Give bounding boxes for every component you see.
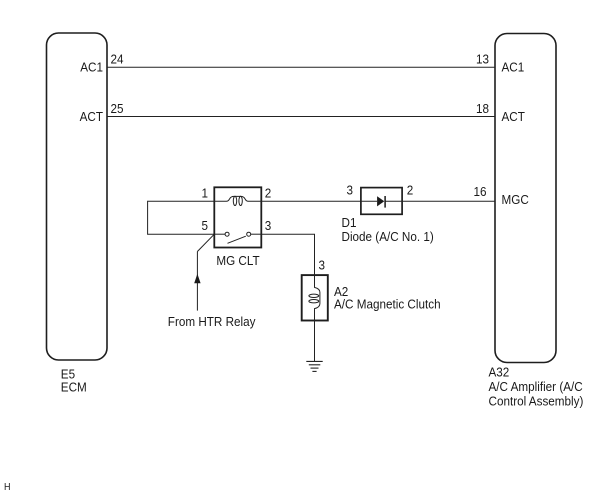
- clutch A2 coil: [309, 275, 320, 320]
- wire from HTR relay vertical: [196, 252, 198, 311]
- svg-text:A/C Magnetic Clutch: A/C Magnetic Clutch: [334, 297, 441, 312]
- svg-text:Control Assembly): Control Assembly): [489, 394, 584, 409]
- svg-text:5: 5: [201, 218, 208, 233]
- wire down to clutch: [314, 234, 316, 275]
- svg-text:Diode (A/C No. 1): Diode (A/C No. 1): [342, 229, 434, 244]
- svg-text:ACT: ACT: [502, 110, 526, 125]
- clutch A2 box: [302, 275, 328, 320]
- svg-text:From HTR Relay: From HTR Relay: [168, 314, 256, 329]
- svg-text:2: 2: [407, 183, 414, 198]
- svg-text:ECM: ECM: [61, 380, 87, 395]
- diode D1 box: [361, 188, 402, 215]
- svg-text:13: 13: [476, 52, 489, 67]
- svg-text:D1: D1: [342, 215, 357, 230]
- connector A32 body: [495, 34, 556, 363]
- svg-text:16: 16: [473, 184, 486, 199]
- svg-text:AC1: AC1: [80, 60, 103, 75]
- svg-text:24: 24: [111, 52, 124, 67]
- relay MG CLT box: [214, 187, 261, 247]
- wire relay pin3 out: [261, 233, 315, 235]
- svg-text:AC1: AC1: [502, 60, 525, 75]
- diode D1 wire through: [361, 200, 377, 202]
- svg-text:3: 3: [265, 218, 272, 233]
- svg-text:H: H: [4, 481, 11, 493]
- svg-text:18: 18: [476, 101, 489, 116]
- wire relay pin2 to diode: [261, 200, 361, 202]
- arrow head from HTR relay: [194, 274, 200, 283]
- wire diagonal from relay pin5: [197, 234, 214, 251]
- relay coil: [214, 196, 261, 205]
- svg-text:2: 2: [265, 186, 272, 201]
- svg-text:ACT: ACT: [80, 110, 104, 125]
- svg-text:MGC: MGC: [502, 193, 529, 208]
- svg-text:A/C Amplifier (A/C: A/C Amplifier (A/C: [489, 379, 583, 394]
- ground: [306, 361, 322, 371]
- wire clutch to ground: [314, 321, 316, 362]
- wire loop pin1: [148, 200, 215, 202]
- svg-text:25: 25: [111, 101, 124, 116]
- relay switch: [214, 232, 261, 243]
- svg-text:MG CLT: MG CLT: [216, 253, 260, 268]
- wire loop pin5: [148, 233, 215, 235]
- svg-text:A32: A32: [489, 365, 510, 380]
- wire AC1 pin24 to pin13: [107, 66, 495, 68]
- wire loop vertical: [147, 201, 149, 235]
- diode D1 symbol: [377, 196, 384, 206]
- connector E5 ECM body: [47, 33, 108, 360]
- svg-text:3: 3: [346, 183, 353, 198]
- wire diode to pin16 MGC: [402, 200, 495, 202]
- svg-text:1: 1: [201, 186, 208, 201]
- wire ACT pin25 to pin18: [107, 116, 495, 118]
- svg-text:3: 3: [319, 258, 326, 273]
